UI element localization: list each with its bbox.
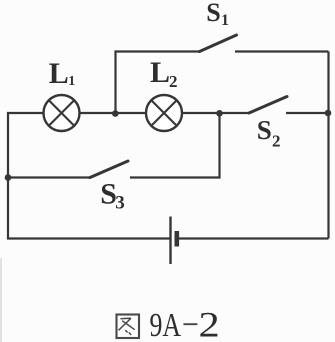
svg-text:S: S	[257, 115, 272, 145]
svg-text:2: 2	[272, 132, 281, 151]
svg-text:1: 1	[68, 74, 75, 89]
svg-text:S: S	[206, 0, 220, 27]
svg-text:L: L	[49, 57, 69, 90]
svg-text:L: L	[150, 56, 170, 89]
svg-text:2: 2	[199, 304, 220, 342]
svg-text:1: 1	[221, 12, 229, 29]
svg-text:9A: 9A	[150, 306, 182, 342]
svg-text:3: 3	[115, 192, 125, 213]
svg-text:2: 2	[169, 72, 178, 91]
